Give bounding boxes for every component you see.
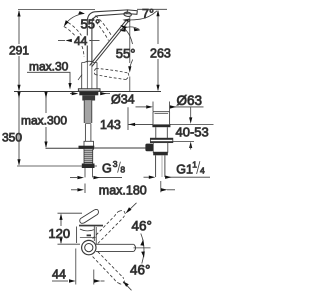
pop-up rod line bbox=[46, 147, 84, 149]
dimension G3/8 bbox=[70, 159, 125, 179]
svg-text:G1: G1 bbox=[176, 163, 193, 177]
svg-text:350: 350 bbox=[2, 131, 22, 145]
svg-text:44: 44 bbox=[52, 268, 66, 282]
drain basin line right of flange bbox=[170, 123, 214, 125]
dimension dia34 bbox=[70, 92, 135, 107]
7 degree arc with arrow bbox=[126, 11, 157, 20]
dimension 263 bbox=[150, 10, 171, 92]
svg-text:46°: 46° bbox=[132, 219, 152, 234]
drain seal ring bbox=[152, 124, 170, 127]
hose ends bbox=[84, 168, 86, 177]
hose connection nuts bbox=[82, 164, 95, 169]
svg-text:291: 291 bbox=[9, 44, 29, 58]
55 deg tip swing arc with two arrows bbox=[120, 27, 140, 30]
drain tailpiece bbox=[156, 155, 165, 177]
svg-text:46°: 46° bbox=[130, 263, 150, 278]
outlet axis extension line bbox=[129, 17, 131, 64]
dashed spout swung up 46 bbox=[93, 211, 126, 244]
dashed spout swung left bbox=[64, 23, 85, 58]
svg-text:7°: 7° bbox=[142, 7, 154, 21]
drain neck bbox=[156, 127, 168, 138]
locknut top ref line bbox=[173, 140, 194, 142]
dimension 120 bbox=[48, 213, 70, 244]
svg-text:max.180: max.180 bbox=[99, 183, 147, 197]
svg-text:G: G bbox=[102, 161, 112, 175]
svg-text:4: 4 bbox=[200, 166, 205, 176]
46 deg leader top bbox=[127, 203, 137, 213]
dashed spout swung down 46 bbox=[93, 252, 125, 284]
threaded shank upper bbox=[84, 101, 92, 124]
dimension dia63 bbox=[136, 93, 204, 112]
svg-text:40-53: 40-53 bbox=[176, 124, 209, 139]
shank plain tube bbox=[85, 124, 91, 142]
base flange bbox=[78, 89, 100, 92]
bar top ref line bbox=[58, 243, 81, 245]
top ref line (lever top) bbox=[58, 212, 83, 214]
drain locknut bbox=[150, 138, 172, 142]
hose-end level line bbox=[17, 165, 97, 167]
svg-text:max.30: max.30 bbox=[29, 60, 69, 74]
svg-text:Ø34: Ø34 bbox=[111, 93, 135, 107]
svg-text:max.300: max.300 bbox=[21, 114, 67, 128]
drain body bbox=[153, 143, 168, 156]
dimension max.180 bbox=[71, 181, 175, 197]
46 swing arc with double arrows bbox=[134, 234, 151, 264]
lever handle (up position, solid) bbox=[90, 19, 130, 67]
lever (plan view, solid) bbox=[80, 209, 99, 223]
spout (solid, centre position) bbox=[87, 10, 137, 63]
dimension 40-53 bbox=[176, 107, 209, 149]
locknut below deck bbox=[79, 92, 98, 96]
drain ball joint bbox=[145, 144, 153, 152]
55 deg lever arc right + label bbox=[122, 26, 133, 44]
svg-text:120: 120 bbox=[48, 226, 70, 241]
svg-text:263: 263 bbox=[150, 47, 171, 61]
faucet body bbox=[78, 61, 97, 88]
dimension max.300 bbox=[21, 92, 67, 148]
svg-text:1: 1 bbox=[192, 160, 197, 170]
dimension G1 1/4 bbox=[144, 160, 211, 179]
dimension 44 (bottom) bbox=[52, 249, 105, 285]
lever handle (down position, dashed) bbox=[94, 69, 128, 80]
aerator at spout tip bbox=[124, 12, 132, 17]
dashed spout swung right bbox=[92, 16, 112, 41]
drain flange bbox=[153, 112, 170, 125]
46 deg leader bottom bbox=[124, 282, 132, 290]
dimension max.30 with leader bbox=[27, 60, 72, 90]
extension line top (spout height ref) bbox=[18, 9, 95, 11]
svg-text:8: 8 bbox=[120, 164, 125, 174]
7 degree ref line bbox=[137, 8, 167, 10]
svg-text:143: 143 bbox=[100, 118, 121, 132]
dimension 291 bbox=[9, 10, 29, 91]
svg-text:55°: 55° bbox=[116, 46, 136, 61]
svg-text:Ø63: Ø63 bbox=[177, 93, 203, 108]
mounting deck line bbox=[14, 91, 161, 93]
spout bar (plan, solid) bbox=[96, 244, 136, 251]
body plan view bbox=[77, 225, 103, 244]
rod coupling fitting bbox=[79, 141, 95, 149]
dimension 44 (top) bbox=[58, 34, 100, 48]
svg-text:3: 3 bbox=[113, 159, 118, 169]
55 deg arc left bbox=[65, 14, 84, 26]
body ring bbox=[82, 240, 96, 254]
threaded shank lower bbox=[84, 149, 93, 163]
dimension 350 bbox=[2, 92, 22, 166]
svg-text:44: 44 bbox=[74, 34, 88, 48]
dimension 143 bbox=[100, 107, 153, 132]
